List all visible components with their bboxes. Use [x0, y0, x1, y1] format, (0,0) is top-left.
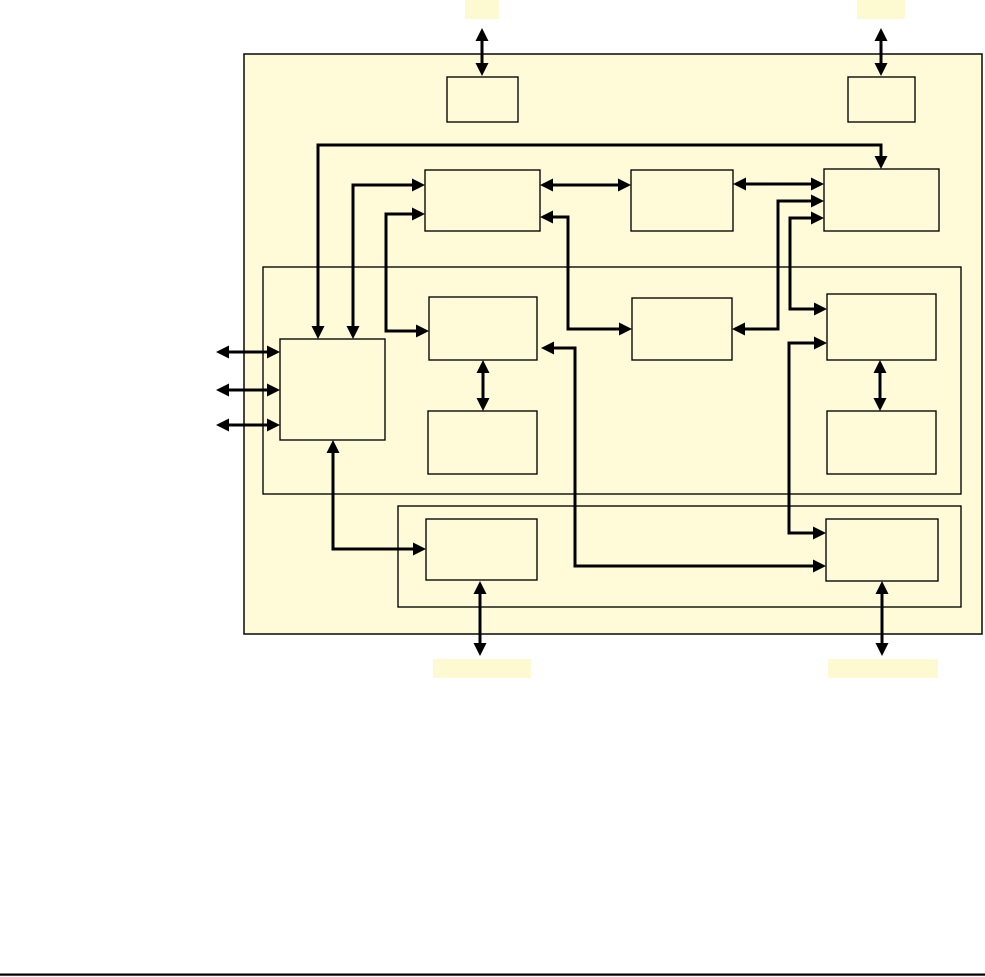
- label top-right (highlighted): [857, 0, 905, 19]
- box E: core row middle block: [632, 298, 732, 360]
- wire W8: box C left (lower) to box F left (upper): [790, 212, 827, 316]
- wire W18: left external double arrow 1: [216, 346, 280, 359]
- wire W11: left block bottom to box G left: [327, 440, 427, 556]
- box F: core row right block: [827, 294, 936, 360]
- wire W10: box D right to box H left (lower): [541, 342, 826, 573]
- wire W1: left block top to box C top (long top run): [312, 145, 888, 339]
- box H: bottom-right block: [826, 519, 938, 581]
- inner core region rectangle: [263, 267, 961, 494]
- page footer rule: [0, 974, 985, 976]
- box C: row-2 right block: [824, 169, 939, 231]
- box D2: block below D: [428, 411, 537, 474]
- label top-left (highlighted): [465, 0, 499, 19]
- wire W13: box F <-> box F2 vertical double arrow: [874, 360, 887, 411]
- wire W15: box H bottom external double arrow: [876, 581, 889, 656]
- outer block: main IC boundary: [244, 54, 982, 634]
- label bottom-left (highlighted): [433, 659, 531, 678]
- wire W9: box F left (lower) to box H left (upper): [789, 337, 827, 540]
- wire W3: box A left (lower) to box D left: [386, 208, 429, 338]
- wire W7: box E right to box C left (middle): [732, 195, 824, 336]
- wire W2: left block top to box A left (upper): [347, 179, 426, 340]
- box LB: left square block (bus interface): [280, 339, 385, 440]
- wire W16: top-left external double arrow: [476, 28, 489, 76]
- wire W4: box A right <-> box B left double arrow: [540, 179, 631, 192]
- box TL: top-left small block: [447, 77, 518, 122]
- wire W5: box B right <-> box C left double arrow: [733, 178, 824, 191]
- wire W6: box A right (lower) to box E left: [540, 211, 632, 336]
- wire W14: box G bottom external double arrow: [474, 581, 487, 656]
- wire W17: top-right external double arrow: [875, 28, 888, 76]
- box B: row-2 middle block: [631, 170, 733, 231]
- wire W19: left external double arrow 2: [216, 384, 280, 397]
- box G: bottom-left block: [426, 519, 537, 580]
- wire W20: left external double arrow 3: [216, 419, 280, 432]
- bottom interface region rectangle: [398, 506, 961, 607]
- box F2: block below F: [827, 411, 936, 474]
- box TR: top-right small block: [848, 77, 915, 122]
- label bottom-right (highlighted): [828, 659, 938, 678]
- box A: row-2 left block: [425, 170, 540, 231]
- wire W12: box D <-> box D2 vertical double arrow: [477, 360, 490, 411]
- box D: core row left block: [429, 297, 537, 360]
